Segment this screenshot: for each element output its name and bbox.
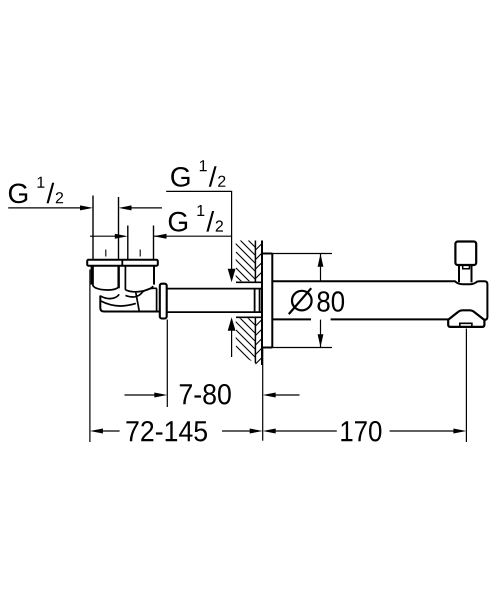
ext line aerator: [465, 329, 467, 443]
pipe joint line: [259, 289, 261, 312]
ext line 7-80 left: [166, 320, 168, 408]
centre tick pipe A: [105, 250, 107, 257]
label Ø80 symbol: [289, 288, 312, 314]
arrow 72-145 right: [250, 429, 263, 434]
ext line wall face: [262, 349, 264, 441]
wall hole bottom edge: [236, 316, 262, 318]
label 72-145: [126, 421, 207, 442]
flange bottom edge: [262, 347, 272, 349]
arrow 72-145 left: [90, 429, 103, 434]
label G1/2 top-middle: [171, 160, 225, 187]
label G1/2 middle: [169, 205, 223, 232]
knob stem: [459, 266, 472, 282]
arrow dim2 left: [115, 234, 128, 239]
dim1 tail right: [131, 207, 162, 209]
dim 170 line right: [390, 430, 454, 432]
arrow 7-80 right: [263, 393, 276, 398]
elbow shoulder wave right: [126, 292, 143, 297]
dim Ø80 ext line top: [272, 253, 332, 255]
dim 72-145 line right: [222, 430, 250, 432]
arrow dim1 left: [80, 205, 93, 210]
label Ø80 text: [318, 291, 345, 312]
flange right edge: [271, 254, 273, 348]
knob notch: [463, 266, 470, 269]
dim 7-80 line right: [275, 394, 300, 396]
elbow collar curve: [143, 288, 157, 291]
arrow dim2 right: [154, 234, 167, 239]
union nut flange seam: [121, 260, 123, 266]
dim2 tail left: [90, 235, 116, 237]
dim Ø80 ext line bottom: [272, 347, 332, 349]
dim Ø80 arrow line upper: [320, 254, 322, 281]
spout body top: [272, 281, 487, 319]
arrow wall up: [228, 317, 236, 331]
wall fine ticks upper: [255, 244, 262, 279]
wall hole top edge: [236, 281, 262, 283]
elbow shoulder wave left: [100, 294, 119, 298]
flange (escutcheon) top edge: [262, 253, 272, 255]
union nut flange: [87, 260, 158, 266]
nut left face arc: [93, 266, 118, 290]
arrow Ø80 up: [318, 254, 324, 267]
label2 underline + drop line: [166, 191, 231, 269]
wall face line: [261, 241, 263, 366]
label3 underline: [154, 235, 232, 237]
nut right face arc: [125, 286, 153, 291]
leader line label1: [8, 207, 81, 209]
arrow wall down: [228, 269, 236, 283]
label G1/2 top-left: [9, 177, 63, 204]
horizontal pipe to wall: [167, 289, 262, 313]
wall hatching lower: [228, 314, 274, 384]
inlet pipe A (left vertical thread): [93, 196, 119, 261]
wall plaster line: [254, 241, 256, 364]
pipe end face line: [254, 289, 256, 312]
dim Ø80 arrow line lower: [320, 320, 322, 348]
arrow 7-80 left: [154, 393, 167, 398]
dim 170 line left: [275, 430, 336, 432]
ext line 72-145 left: [89, 270, 91, 443]
spout body bottom: [272, 318, 448, 320]
wall hatching upper: [228, 236, 282, 306]
arrow 170 right: [453, 429, 466, 434]
wall arrow lower line: [231, 330, 233, 357]
label 170: [341, 421, 381, 442]
aerator insert: [460, 323, 472, 327]
wall fine ticks lower: [255, 320, 262, 365]
arrow dim1 right: [119, 205, 132, 210]
elbow lower arc: [100, 301, 136, 306]
nut middle seam: [119, 266, 125, 290]
diverter knob: [455, 242, 476, 266]
elbow body outline: [100, 296, 160, 312]
inlet pipe B (right vertical thread): [128, 226, 154, 261]
arrow Ø80 down: [318, 334, 324, 347]
elbow seam slanted: [136, 293, 140, 312]
dim 7-80 line left: [125, 394, 156, 396]
elbow collar edge: [156, 288, 158, 311]
union nut body: [92, 266, 154, 285]
centre tick pipe B: [139, 250, 141, 257]
aerator housing: [448, 319, 484, 327]
arrow 170 left: [263, 429, 276, 434]
union ring: [160, 284, 167, 319]
dim 72-145 line left: [103, 430, 120, 432]
label 7-80: [180, 384, 231, 405]
aerator dome: [448, 310, 486, 319]
